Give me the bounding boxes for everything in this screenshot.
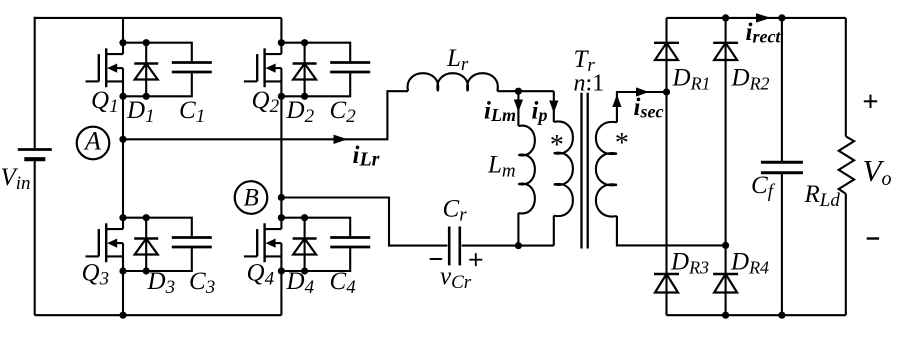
svg-text:A: A [83,127,101,156]
junction bottom rail leg1 [119,312,126,319]
node B [235,181,268,214]
diode D2 [293,43,317,97]
transformer core Tr [582,93,588,249]
arrow iLm [514,100,523,113]
transistor Q2 [244,42,282,98]
junction Lm top [515,88,522,95]
wire DR2 branch [725,18,727,315]
arrow iLr [334,135,348,144]
junction dots [278,214,308,275]
junction secondary top [663,88,670,95]
wire Lm top [517,91,519,126]
capacitor Cf [761,18,803,315]
battery Vin [18,150,52,160]
wire Cr to primary bottom [462,245,554,247]
wire top rail right [667,17,846,19]
junction node B [278,194,285,201]
junction Cf top [778,14,785,21]
transistor Q4 [244,217,282,272]
svg-text:*: * [549,130,563,161]
wire bottom rail left [35,314,282,316]
svg-text:B: B [244,184,259,211]
transistor Q3 [86,217,124,272]
junction dots [119,214,149,275]
wire Lm bottom [517,213,519,246]
wire leg1 middle [122,96,124,217]
arrow irect [756,13,771,22]
diode D1 [134,43,158,97]
transistor Q1 [86,42,124,98]
junction dots [119,39,149,100]
junction node A [119,136,126,143]
capacitor C3 [123,218,212,271]
wire left top [34,17,36,149]
inductor Lr [408,73,498,91]
capacitor C1 [123,43,212,97]
wire bottom rail right [667,314,846,316]
resistor RLd [839,18,854,315]
junction DR2 top [722,14,729,21]
wire leg2 upper [280,18,282,43]
arrow isec up [612,95,621,108]
junction DR4 bottom [722,312,729,319]
diode D4 [293,218,317,271]
inductor Lm [518,126,535,214]
wire node A to Lr [123,91,408,139]
capacitor Cr [449,227,460,266]
transformer primary winding [554,122,573,217]
diode DR1 [654,43,679,60]
capacitor C4 [281,218,370,271]
wire leg2 lower [280,271,282,315]
capacitor C2 [281,43,370,97]
junction dots [278,39,308,100]
wire DR1 branch [665,18,667,315]
transformer secondary winding [596,122,617,217]
wire leg1 upper [122,18,124,43]
label minus vCr [430,258,442,260]
wire secondary top [617,92,667,122]
wire leg1 lower [122,271,124,315]
wire Lr to primary [497,90,553,92]
label minus Vo [867,237,879,239]
wire leg2 middle [280,96,282,217]
wire node B to Cr [281,198,447,246]
diode DR3 [654,274,679,293]
wire left bottom [34,161,36,316]
junction Cf bottom [778,312,785,319]
arrow ip [549,101,558,114]
arrow isec right [636,87,649,96]
label plus vCr [469,253,482,266]
diode DR4 [713,274,738,293]
junction secondary bottom [722,242,729,249]
junction Lm bottom [515,242,522,249]
diode DR2 [713,43,738,60]
wire primary bottom [553,216,555,246]
diode D3 [134,218,158,271]
svg-text:n:1: n:1 [574,71,605,97]
wire secondary bottom [617,216,726,245]
node A [77,127,110,160]
wire primary top [553,91,555,122]
label plus Vo [864,95,877,108]
svg-text:*: * [614,128,628,159]
wire top rail left [35,17,282,19]
